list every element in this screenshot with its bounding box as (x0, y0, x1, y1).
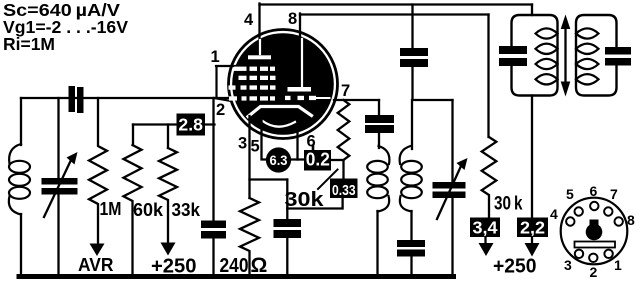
wire 60k top drop (132, 125, 134, 146)
wire circle to box (291, 158, 305, 160)
socket pin 6 hole (590, 202, 598, 210)
IF1 primary capsule (512, 15, 558, 96)
svg-text:6: 6 (307, 133, 316, 151)
svg-text:1: 1 (614, 257, 622, 273)
wire cathode junction right y179.5 (250, 178, 288, 180)
socket center key (586, 224, 603, 241)
svg-text:5: 5 (251, 138, 260, 156)
socket pin 7 hole (604, 207, 612, 215)
svg-text:0.2: 0.2 (306, 150, 330, 170)
tube grid row 3 (229, 85, 276, 89)
box 0.2 (304, 150, 331, 171)
wire IF1 primary top lead (531, 5, 533, 16)
svg-text:3,4: 3,4 (473, 218, 498, 238)
wire pin8 lead (299, 14, 301, 42)
svg-text:8: 8 (288, 10, 297, 28)
wire top anode bus y4.5 (260, 3, 533, 5)
svg-text:7: 7 (341, 82, 350, 100)
capacitor variable 2 plates (433, 182, 466, 189)
socket pin 1 hole (604, 250, 612, 258)
tube grid row 1 (234, 67, 275, 71)
svg-text:33k: 33k (172, 200, 201, 220)
wire stub into 0.2 box top (312, 147, 315, 151)
box 3,4 (470, 218, 500, 238)
wire IF1 primary bottom lead (531, 96, 533, 218)
tube outer envelope (229, 30, 338, 139)
tube grid row 4 full width (229, 96, 331, 101)
socket pin 2 hole (589, 254, 597, 262)
svg-text:6.3: 6.3 (270, 152, 288, 168)
tube internal anode 1 bar (248, 55, 271, 59)
tube internal anode 1 white lead (259, 40, 261, 54)
resistor 240 ohm (240, 198, 259, 276)
capacitor IF1 primary (499, 46, 527, 54)
resistor 30k right (482, 137, 497, 218)
coupling arrow double head (564, 24, 566, 86)
tube internal anode 2 bar (288, 87, 312, 92)
wire 30k right branch x488.5 (487, 15, 489, 138)
svg-text:2.8: 2.8 (178, 115, 203, 135)
inductor IF2 secondary (400, 146, 422, 212)
socket outline (561, 198, 628, 265)
wire top screen bus y14.5 (300, 13, 489, 15)
svg-text:30 k: 30 k (494, 194, 523, 215)
arrow +250 left (161, 243, 176, 256)
resistor 60k (124, 145, 142, 276)
inductor IF1 secondary loops (576, 28, 599, 84)
arrow of variable cap 2 (437, 166, 461, 219)
wire divider to 2.8 box y124 (133, 123, 215, 125)
wire pin7 to coil y100 (334, 99, 379, 101)
box 2,2 (517, 218, 548, 238)
wire pin6 lead (296, 120, 298, 160)
svg-text:4: 4 (550, 206, 558, 222)
resistor 30k screen (338, 100, 350, 178)
capacitor grid bypass (201, 221, 226, 229)
box 2.8 (177, 114, 206, 136)
inductor IF2 primary (367, 146, 389, 212)
wire 33k top drop (167, 125, 169, 149)
socket pin 4 hole (566, 217, 574, 225)
svg-text:AVR: AVR (78, 254, 114, 275)
inductor antenna coil (9, 144, 30, 215)
svg-text:8: 8 (627, 212, 635, 228)
leader line 30k (318, 170, 338, 190)
wire variable cap branch x58.5 (57, 98, 59, 277)
tube grid row 2 (239, 76, 276, 80)
meter circle 6.3 (266, 147, 291, 172)
svg-text:4: 4 (244, 11, 254, 29)
svg-text:1M: 1M (100, 199, 122, 219)
capacitor bottom x411 (397, 240, 425, 247)
tube cathode (248, 107, 312, 117)
svg-text:2: 2 (216, 101, 225, 119)
box 0.33 (330, 179, 358, 199)
svg-text:240: 240 (220, 255, 249, 277)
capacitor variable tuning left plates (42, 178, 78, 185)
socket pin 8 hole (615, 217, 623, 225)
svg-text:0.33: 0.33 (332, 183, 356, 199)
svg-text:2: 2 (590, 264, 598, 280)
svg-text:3: 3 (238, 135, 247, 153)
wire cathode bypass branch x287 (286, 180, 288, 277)
capacitor cathode bypass (274, 219, 302, 227)
capacitor IF1 secondary (605, 47, 631, 55)
wire left branch vertical x21 (20, 98, 22, 277)
tube internal anode 2 white lead (301, 39, 303, 88)
capacitor top x413 (400, 48, 428, 56)
wire pin2 entry (214, 98, 231, 101)
arrow of variable cap left (44, 160, 71, 217)
arrow below 2,2 (531, 237, 533, 244)
wire pin5 lead (262, 115, 268, 160)
wire pin4 lead (258, 4, 260, 44)
svg-text:Ω: Ω (251, 254, 268, 277)
capacitor series grid coupling C1 (69, 86, 76, 112)
svg-text:+250: +250 (493, 256, 537, 278)
capacitor pin7 coupling (365, 115, 394, 123)
svg-text:1: 1 (211, 48, 220, 66)
arrow AVR (90, 244, 105, 257)
wire 0.33 down to cathode branch (287, 198, 342, 209)
socket pin 3 hole (575, 250, 583, 258)
arrow below 3,4 (484, 237, 486, 244)
wire top grid bus y98 (21, 97, 230, 99)
inductor IF1 primary loops (536, 28, 558, 84)
resistor 1M (89, 98, 107, 243)
resistor 33k (159, 148, 177, 244)
svg-text:2,2: 2,2 (520, 218, 545, 238)
wire variable cap 2 branch x452.5 (451, 100, 453, 277)
IF1 secondary capsule (576, 15, 617, 96)
wire pin1 stub and bracket (216, 66, 236, 98)
svg-text:Ri=1M: Ri=1M (3, 34, 55, 54)
tube black disk (232, 33, 334, 135)
wire grid vertical x213.5 (212, 98, 214, 276)
svg-text:5: 5 (566, 186, 574, 202)
socket slot (575, 242, 616, 248)
svg-text:60k: 60k (133, 200, 164, 220)
wire x379 drop (378, 100, 380, 276)
svg-text:3: 3 (564, 257, 572, 273)
wire 0.2 to resistor (331, 159, 344, 161)
svg-text:7: 7 (610, 186, 618, 202)
svg-text:6: 6 (590, 183, 598, 199)
wire pin3 lead down (248, 116, 250, 198)
wire x413 top branch (412, 5, 453, 277)
socket pin 5 hole (575, 207, 583, 215)
tube heater arc (262, 121, 295, 127)
ground bus bottom (19, 274, 454, 279)
